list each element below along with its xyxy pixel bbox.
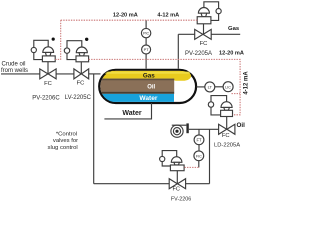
actuator of PV-2206C: frame wire [34,40,48,59]
svg-text:FV-2206: FV-2206 [171,197,191,203]
actuator of FV-2206: frame wire [162,151,177,166]
node: asterisk dot for PV-2206C [52,38,55,41]
wire: gas outlet riser [177,34,179,68]
svg-text:4-12 mA: 4-12 mA [157,12,179,18]
svg-text:FC: FC [77,80,85,86]
valve PV-2206C (body) [40,69,56,79]
wire: vessel to LT [197,86,205,88]
node: FC label of LV-2205C [77,80,85,86]
actuator of LV-2205C: neck [79,53,85,56]
separator vessel shell [99,70,196,103]
actuator of PV-2206C: I/P circle [31,47,36,52]
svg-text:4-12 mA: 4-12 mA [243,71,249,95]
pump P-1: inner ring [173,128,180,135]
separator oil band [100,79,174,92]
wire: signal PIC to PV-2206C [55,20,61,59]
pump P-1: discharge flange bar [186,123,188,133]
node: FC label of PV-2206C [44,81,52,87]
wire: signal LIC branch [232,93,241,95]
instrument FIC [194,151,204,161]
node: label LV-2205C [65,95,92,101]
instrument PT [142,45,151,54]
wire: valve LD-2205A stem [226,117,228,130]
wire: FT tap [198,129,200,135]
node: Gas band label [143,72,155,79]
node: label LD-2205A [214,142,240,148]
wire: recycle riser [209,129,211,183]
node: Oil outlet label [237,122,246,129]
pump P-1: hub dot [175,130,178,133]
svg-text:Gas: Gas [143,72,155,79]
node: label PV-2205A [185,51,212,57]
actuator of FV-2206: I/P circle [160,156,165,161]
wire: valve PV-2205A stem [203,24,205,35]
actuator of LD-2205A: frame wire [211,96,227,115]
svg-text:LIC: LIC [225,85,231,89]
svg-text:12-20 mA: 12-20 mA [113,12,138,18]
wire: PT to PIC [145,38,147,45]
svg-text:*Control: *Control [56,131,77,137]
svg-text:FC: FC [172,187,179,193]
wire: bottom slug pipe [94,183,210,185]
node: label FV-2206 [171,197,191,203]
node: label 4-12 mA vertical [243,71,249,95]
actuator of FV-2206: positioner box [170,165,184,171]
actuator of LD-2205A: I/P circle [208,102,213,107]
signal lines (red dashed) [55,20,240,167]
node: Oil band label [147,85,155,91]
node: Gas outlet label [228,26,240,32]
actuator of PV-2205A: frame wire [204,2,219,21]
svg-text:slug control: slug control [48,145,78,151]
actuator of LD-2205A: positioner box [221,110,233,116]
svg-text:Oil: Oil [147,85,155,91]
pump P-1: volute tangent [172,124,187,126]
wire: pipe valve LV-2205C to separator [89,73,101,75]
separator gas band [102,71,191,81]
wire: oil pipe pump to valve LD-2205A [189,128,219,130]
pump P-1: casing [171,125,183,137]
wire: water outlet pipe [104,103,151,119]
svg-text:12-20 mA: 12-20 mA [219,50,244,56]
svg-text:Water: Water [139,95,158,102]
node: asterisk dot for LV-2205C [85,38,88,41]
wire: gas outlet pipe [178,33,240,35]
svg-text:PV-2206C: PV-2206C [32,95,60,101]
actuator of PV-2206C: dome [43,47,54,53]
separator oil band top shadow [102,79,174,81]
valve FV-2206 (body) [169,179,185,189]
valve LV-2205C (body) [74,69,89,79]
node: FC label of LD-2205A [222,133,230,139]
instrument FT [194,135,204,145]
actuator of PV-2205A: positioner box [197,17,211,24]
wire: FIC output drop [198,161,200,168]
svg-text:Oil: Oil [237,122,246,129]
actuator of LD-2205A: dome [221,102,232,108]
actuator of PV-2206C: positioner box [42,56,55,62]
actuator of PV-2205A: dome [198,7,209,13]
actuator of LD-2205A: neck [224,107,230,110]
svg-text:PIC: PIC [143,32,149,36]
wire: pipe between inlet valves [56,73,74,75]
wire: valve LV-2205C stem [80,62,82,74]
instrument LT [205,82,215,92]
actuator of PV-2205A: neck [201,13,207,17]
node: Water outlet label [122,110,141,117]
node: label 12-20 mA right [219,50,244,56]
instrument PIC [141,28,150,37]
actuator of LV-2205C: frame wire [67,41,82,60]
separator water band [102,94,174,102]
svg-text:LD-2205A: LD-2205A [214,142,240,148]
svg-text:valves for: valves for [53,138,78,144]
wire: crude oil inlet pipe [1,73,40,75]
svg-text:PV-2205A: PV-2205A [185,51,212,57]
svg-text:FC: FC [222,133,230,139]
separator oil-water interface band [101,92,174,94]
node: label PV-2206C [32,95,60,101]
wire: LT to LIC [215,86,223,88]
svg-text:Gas: Gas [228,26,240,32]
actuator of FV-2206: dome [171,157,182,163]
actuator of PV-2206C: neck [45,52,51,56]
valve LD-2205A (body) [219,124,235,134]
wire: FT to FIC [198,145,200,151]
node: FC label of PV-2205A [200,41,208,47]
svg-text:FC: FC [44,81,52,87]
node: inlet label [1,61,28,74]
svg-text:FIC: FIC [196,154,202,158]
svg-text:from wells: from wells [1,68,28,74]
node: footnote text [48,131,79,151]
svg-text:FT: FT [196,138,202,143]
actuator of LV-2205C: I/P circle [64,48,69,53]
svg-text:FC: FC [200,41,208,47]
svg-text:Crude oil: Crude oil [2,61,26,67]
separator gas band highlight [105,72,190,74]
wire: signal PIC header to PV-2205A [61,19,198,21]
svg-text:LT: LT [208,85,213,90]
node: Water band label [139,95,158,102]
actuator of PV-2205A: I/P circle [216,9,221,14]
node: FC label of FV-2206 [172,187,179,193]
svg-text:Water: Water [122,110,141,117]
instrument LIC [223,82,233,92]
wire: slug bypass downcomer [93,74,95,184]
actuator of LV-2205C: positioner box [76,56,89,62]
valve PV-2205A (body) [195,29,212,39]
wire: PIC to signal line [145,20,147,28]
svg-text:LV-2205C: LV-2205C [65,95,92,101]
wire: signal FIC to FV-2206 [184,166,198,168]
wire: valve FV-2206 stem [176,171,178,184]
wire: signal LIC to LV-2205C [89,59,241,114]
svg-text:PT: PT [144,47,150,52]
node: label 12-20 mA top [113,12,138,18]
actuator of FV-2206: neck [174,162,179,165]
wire: valve PV-2206C stem [47,62,49,74]
wire: pressure tap vessel to PT [145,54,147,69]
actuator of LV-2205C: dome [76,47,87,53]
node: label 4-12 mA top [157,12,179,18]
